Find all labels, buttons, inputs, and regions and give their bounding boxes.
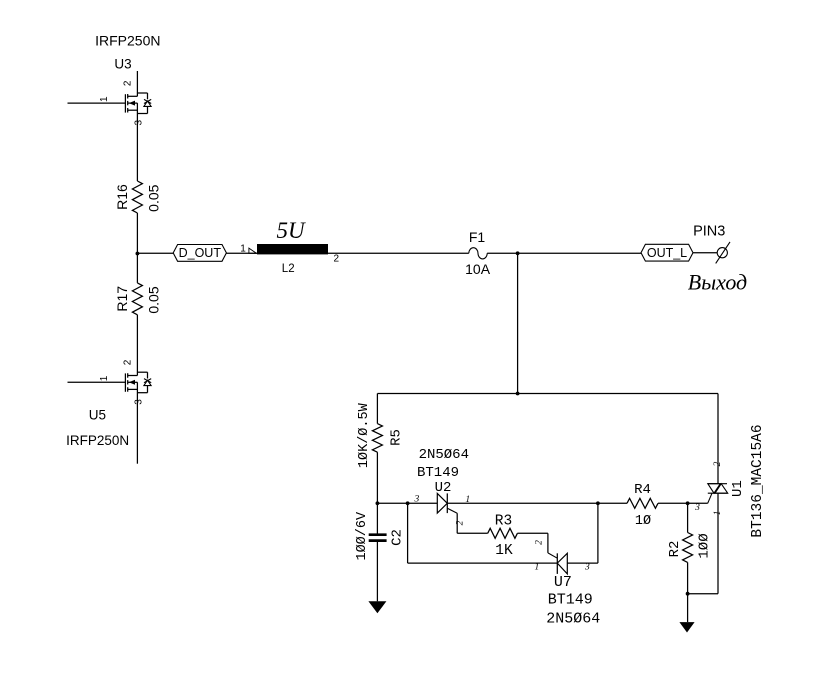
svg-text:1K: 1K	[495, 543, 513, 559]
svg-text:F1: F1	[469, 229, 486, 245]
svg-text:2: 2	[713, 461, 723, 466]
svg-text:1: 1	[713, 511, 723, 516]
svg-text:3: 3	[134, 119, 145, 125]
svg-text:C2: C2	[390, 529, 406, 546]
svg-text:2: 2	[535, 540, 545, 545]
svg-text:L2: L2	[282, 263, 295, 275]
svg-text:2N5Ø64: 2N5Ø64	[546, 610, 600, 627]
svg-text:1ØK/Ø.5W: 1ØK/Ø.5W	[357, 402, 372, 468]
svg-text:R5: R5	[389, 429, 405, 446]
svg-text:U1: U1	[730, 480, 746, 497]
svg-text:1Ø: 1Ø	[635, 514, 651, 529]
svg-text:R3: R3	[495, 513, 512, 529]
svg-text:PIN3: PIN3	[693, 224, 725, 240]
svg-text:R4: R4	[634, 482, 651, 498]
svg-text:3: 3	[694, 503, 700, 513]
svg-text:R16: R16	[114, 184, 130, 210]
svg-text:IRFP250N: IRFP250N	[95, 32, 160, 48]
svg-text:2: 2	[123, 80, 134, 86]
svg-text:Выход: Выход	[688, 270, 747, 295]
svg-text:1: 1	[240, 243, 246, 254]
svg-text:2: 2	[123, 359, 134, 365]
svg-text:D_OUT: D_OUT	[179, 246, 222, 260]
svg-text:U7: U7	[554, 574, 572, 591]
svg-text:R17: R17	[114, 286, 130, 312]
svg-text:1: 1	[99, 96, 110, 102]
svg-text:10A: 10A	[465, 261, 491, 277]
svg-text:0.05: 0.05	[146, 286, 162, 313]
svg-text:1: 1	[99, 375, 110, 381]
svg-text:2N5Ø64: 2N5Ø64	[419, 447, 469, 463]
svg-text:2: 2	[456, 520, 466, 525]
svg-text:0.05: 0.05	[146, 184, 162, 211]
svg-text:BT149: BT149	[548, 592, 593, 609]
svg-text:3: 3	[414, 495, 420, 505]
svg-text:1ØØ/6V: 1ØØ/6V	[355, 511, 370, 561]
svg-text:U2: U2	[435, 480, 452, 496]
svg-text:OUT_L: OUT_L	[647, 246, 687, 260]
svg-text:U3: U3	[114, 57, 131, 72]
svg-text:IRFP250N: IRFP250N	[66, 433, 129, 448]
svg-text:BT136_MAC15A6: BT136_MAC15A6	[750, 424, 766, 537]
svg-text:1: 1	[465, 495, 470, 505]
svg-text:BT149: BT149	[417, 465, 459, 481]
svg-text:1ØØ: 1ØØ	[697, 533, 713, 558]
svg-text:5U: 5U	[277, 218, 307, 243]
svg-text:U5: U5	[89, 408, 106, 423]
svg-text:3: 3	[584, 562, 590, 572]
svg-text:3: 3	[134, 399, 145, 405]
svg-text:R2: R2	[667, 541, 683, 558]
svg-text:2: 2	[334, 253, 340, 264]
svg-text:1: 1	[535, 562, 540, 572]
